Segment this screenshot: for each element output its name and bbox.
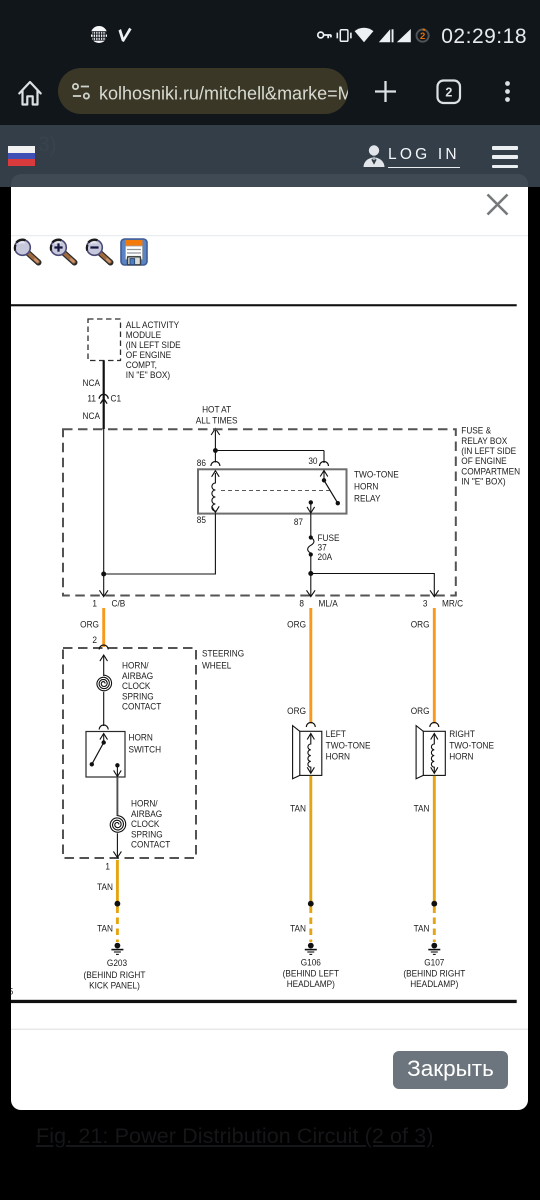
connector C1 [99,394,108,399]
status icon data-saver circle 2 [417,29,429,42]
svg-text:HORN: HORN [326,751,350,762]
relay pin87 stem arrow down [310,502,312,513]
svg-text:C/B: C/B [112,598,126,609]
svg-text:8: 8 [299,598,304,609]
horn coil [431,734,434,774]
wire: pin 87 to fuse [310,514,312,538]
status icon vibrate phone [337,30,351,42]
svg-text:TAN: TAN [290,803,306,814]
svg-text:ML/A: ML/A [319,598,338,609]
junction node B [308,571,313,576]
toolbar plus [375,81,396,102]
ground G106 [305,943,317,955]
left horn H1 [293,723,322,779]
svg-text:G107: G107 [424,957,444,968]
wire ORG (right) [433,608,436,724]
russian flag [8,146,35,166]
svg-text:30: 30 [308,455,317,466]
svg-text:OF ENGINE: OF ENGINE [461,456,506,467]
close X [488,195,508,215]
wire: module to connector C1 [103,361,105,430]
login icon + text [360,141,390,171]
connector arc pin 30 [320,462,329,467]
wire: feed down to junction [214,429,216,463]
svg-text:(IN LEFT SIDE: (IN LEFT SIDE [461,445,516,456]
svg-text:LEFT: LEFT [326,728,347,739]
horn bell trapezoid [293,726,300,779]
svg-text:1: 1 [105,861,110,872]
close button [393,1051,508,1089]
svg-text:5: 5 [11,986,13,997]
toolbar bottom border [11,235,528,236]
wire: junction B across and down to terminal 3 arrow [311,574,435,597]
svg-text:SPRING: SPRING [131,829,163,840]
clock spring contact 1 (spiral) [97,675,112,691]
horn bell trapezoid [416,726,423,779]
horn switch arrow up [100,734,108,740]
svg-text:SPRING: SPRING [122,691,154,702]
svg-text:NCA: NCA [83,377,100,388]
svg-text:ORG: ORG [411,705,430,716]
svg-text:TWO-TONE: TWO-TONE [354,469,399,480]
wire horn switch to clock spring 2 [116,777,118,816]
horn switch S1 box [86,732,125,778]
status icon key (VPN) [318,32,331,38]
wire: down to pin 30 [323,451,325,464]
diagram sheet top border [11,304,517,306]
svg-text:(BEHIND LEFT: (BEHIND LEFT [283,968,340,979]
ground G203 [111,943,123,955]
svg-text:CLOCK: CLOCK [122,681,150,692]
wire ORG (left) [102,608,105,647]
svg-text:(BEHIND RIGHT: (BEHIND RIGHT [84,969,146,980]
wire ORG (middle) [309,608,312,724]
relay coil winding [212,473,215,513]
toolbar home icon [19,82,40,105]
svg-text:AIRBAG: AIRBAG [122,670,153,681]
horn body box [300,731,322,775]
svg-text:WHEEL: WHEEL [202,660,231,671]
svg-text:IN "E" BOX): IN "E" BOX) [126,369,170,380]
wire: junction B to terminal 8 arrow [310,574,312,597]
fuse F37 [309,535,313,539]
hamburger [492,146,518,150]
module M1: ALL ACTIVITY MODULE dashed box [88,319,121,361]
relay pin87 node [309,500,313,504]
wire TAN (middle) [309,776,312,903]
relay K1 box [198,469,347,513]
wire clock spring 2 to steering box edge arrow [116,833,118,857]
svg-text:CLOCK: CLOCK [131,819,159,830]
label HORN/AIRBAG CLOCK SPRING CONTACT (upper) [122,660,162,712]
wire TAN dashed to ground (right) [433,907,436,943]
svg-text:RELAY BOX: RELAY BOX [461,435,507,446]
wire: pin 85 down and left to junction [104,514,216,575]
feed arrow up [211,429,220,436]
horn switch blade [92,743,104,765]
svg-text:1: 1 [92,598,97,609]
svg-text:AIRBAG: AIRBAG [131,808,162,819]
connector arc right horn [430,723,439,728]
toolbar tab counter [438,81,461,104]
svg-text:RIGHT: RIGHT [449,728,475,739]
svg-text:SWITCH: SWITCH [129,744,162,755]
svg-text:87: 87 [294,516,303,527]
svg-text:KICK PANEL): KICK PANEL) [89,980,140,991]
notification icon Burger King [90,26,107,43]
horn switch node top [102,740,106,744]
svg-text:kolhosniki.ru/mitchell&marke=M: kolhosniki.ru/mitchell&marke=M [99,84,353,104]
svg-text:3: 3 [423,598,428,609]
splice node G107 [431,901,437,907]
svg-text:TAN: TAN [97,881,113,892]
STEERING WHEEL dashed enclosure [63,648,196,858]
svg-text:G203: G203 [107,957,127,968]
svg-text:ALL TIMES: ALL TIMES [196,415,238,426]
horn switch node output [115,763,119,767]
relay switch blade end node [336,501,340,505]
notification icon V [119,28,132,42]
status icon signal triangle with ! [379,29,390,42]
relay switch contact node [322,478,326,482]
svg-text:2: 2 [445,85,452,99]
icon magnifier zoom-out [87,240,111,263]
svg-text:86: 86 [197,457,206,468]
horn body box [423,731,445,775]
svg-text:HOT AT: HOT AT [202,404,232,415]
zoom toolbar icons [15,239,147,265]
svg-text:TWO-TONE: TWO-TONE [326,740,371,751]
svg-text:STEERING: STEERING [202,648,244,659]
svg-text:RELAY: RELAY [354,493,381,504]
relay actuation dashed link [221,490,333,492]
svg-text:2: 2 [420,31,425,42]
label FUSE & RELAY BOX [461,425,520,487]
horn switch output arrow down [116,765,118,776]
svg-text:NCA: NCA [83,410,100,421]
relay coil arrow down [212,506,220,512]
wire to clock spring 1 [103,655,105,676]
svg-text:85: 85 [197,514,206,525]
svg-text:ORG: ORG [80,619,99,630]
svg-text:CONTACT: CONTACT [122,701,162,712]
wire: C1 into fuse box down to junction [103,429,105,574]
splice node G106 [308,901,314,907]
svg-text:CONTACT: CONTACT [131,839,171,850]
relay coil arrow up [212,471,220,477]
icon magnifier zoom-in [51,240,75,263]
svg-text:HORN: HORN [449,751,473,762]
icon magnifier plain [15,240,39,263]
wire: feed across to pin 30 [215,450,324,452]
arrow up into steering [100,655,108,661]
wire: fuse to junction B [310,555,312,574]
horn coil arrow down [307,767,314,773]
svg-text:C1: C1 [111,393,122,404]
svg-text:(BEHIND RIGHT: (BEHIND RIGHT [403,968,465,979]
svg-text:G106: G106 [301,957,321,968]
horn coil [308,734,311,774]
svg-text:HORN/: HORN/ [131,798,158,809]
connector arc at horn switch [99,725,108,730]
svg-text:HORN/: HORN/ [122,660,149,671]
svg-text:HEADLAMP): HEADLAMP) [287,978,335,989]
svg-text:2: 2 [92,634,97,645]
junction node feed [213,448,218,453]
svg-text:HORN: HORN [354,481,378,492]
svg-text:ORG: ORG [287,619,306,630]
page info tune icon [73,84,89,99]
svg-text:FUSE &: FUSE & [461,425,491,436]
connector arc left horn [306,723,315,728]
horn coil arrow down [431,767,438,773]
wire TAN (left) [116,860,119,903]
wire TAN (right) [433,776,436,903]
wire clock spring 1 to horn switch [103,692,105,726]
svg-text:TWO-TONE: TWO-TONE [449,740,494,751]
horn coil arrow up [307,734,314,740]
svg-text:COMPARTMEN: COMPARTMEN [461,466,520,477]
wire: junction to terminal 1 arrow [103,574,105,597]
svg-text:11: 11 [87,393,96,404]
label FUSE 37 20A [317,532,339,562]
svg-text:HEADLAMP): HEADLAMP) [410,978,458,989]
toolbar kebab menu [505,81,510,86]
label: ALL ACTIVITY MODULE [126,319,181,380]
label HORN/AIRBAG CLOCK SPRING CONTACT (lower) [131,798,171,850]
right horn H2 [416,723,445,779]
label RIGHT TWO-TONE HORN [449,728,494,761]
label TWO-TONE HORN RELAY [354,469,399,504]
wire TAN dashed to ground (middle) [309,907,312,943]
diagram sheet bottom border [11,1000,517,1003]
svg-text:MR/C: MR/C [442,598,464,609]
status icon signal triangle 2 [397,29,411,42]
svg-text:HORN: HORN [129,732,153,743]
svg-text:TAN: TAN [414,923,430,934]
horn switch node blade end [90,762,94,766]
FUSE & RELAY BOX dashed enclosure [63,429,456,595]
label LEFT TWO-TONE HORN [326,728,371,761]
svg-text:02:29:18: 02:29:18 [441,25,527,48]
horn coil arrow up [431,734,438,740]
svg-text:IN "E" BOX): IN "E" BOX) [461,476,505,487]
connector arc pin 86 [211,462,220,467]
url pill [58,68,348,114]
relay switch pin30 stem [320,471,328,477]
footer top border [11,1029,528,1030]
status icon wifi [355,28,374,43]
svg-text:ORG: ORG [411,619,430,630]
svg-text:TAN: TAN [97,923,113,934]
wire TAN dashed to ground [116,907,119,943]
svg-text:20A: 20A [317,551,332,562]
svg-text:TAN: TAN [290,923,306,934]
splice node G203 [115,901,121,907]
svg-text:TAN: TAN [414,803,430,814]
svg-text:ORG: ORG [287,705,306,716]
ground G107 [428,943,440,955]
connector arc at steering pin 2 [99,645,108,650]
clock spring contact 2 (spiral) [110,816,126,833]
icon floppy save [121,239,147,265]
relay switch blade [324,480,338,503]
junction node A [101,572,106,577]
